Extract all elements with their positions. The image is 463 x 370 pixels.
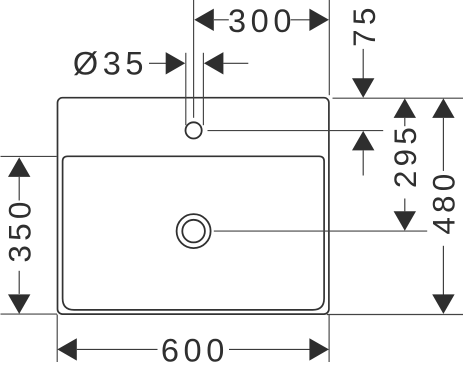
drain outer circle: [177, 214, 211, 248]
dim 295: lower tail: [404, 199, 406, 212]
dia35 left tangent extension: [185, 53, 187, 125]
dim 75: lower tail: [362, 150, 364, 175]
600 right extension (vertical): [328, 315, 330, 363]
svg-text:350: 350: [1, 197, 37, 262]
dim 480: down arrow: [432, 294, 454, 314]
svg-text:300: 300: [228, 3, 296, 39]
rear edge extension (horizontal right): [333, 97, 463, 99]
bowl rear extension (horizontal left): [1, 155, 57, 157]
front edge extension (horizontal right): [327, 314, 463, 316]
washbasin inner bowl: [63, 156, 325, 310]
svg-text:Ø35: Ø35: [73, 46, 148, 82]
dim dia35: right-pointing arrow: [166, 52, 186, 74]
tap centerline extension (vertical): [193, 0, 195, 118]
dia35 right tangent extension: [202, 53, 204, 125]
svg-text:295: 295: [387, 123, 423, 188]
drain inner circle: [182, 220, 205, 243]
dim 75: up arrow: [352, 131, 374, 151]
dim 300: line tails: [214, 19, 229, 21]
drain center extension (horizontal right): [214, 230, 427, 232]
dim 295: down arrow: [394, 211, 416, 231]
600 left extension (vertical): [56, 315, 58, 363]
dim 75: down arrow: [352, 78, 374, 98]
dim 350: lower tail: [18, 271, 20, 294]
dim 480: lower tail: [442, 246, 444, 295]
dim 600: left tail: [77, 348, 158, 350]
tap center extension (horizontal right): [208, 130, 384, 132]
washbasin outer rim: [58, 98, 329, 314]
dim 295: upper tail: [404, 118, 406, 126]
dim dia35: left-pointing arrow: [204, 52, 224, 74]
svg-text:600: 600: [161, 333, 229, 369]
dim 75: upper tail: [362, 49, 364, 79]
dim dia35: right tail: [223, 62, 248, 64]
dim 300: right arrow: [309, 9, 329, 31]
dim 300: left arrow: [194, 9, 214, 31]
right edge extension (vertical, for 300): [328, 0, 330, 95]
dim 350: down arrow: [8, 294, 30, 314]
dim 600: right arrow: [309, 338, 329, 360]
svg-text:75: 75: [346, 3, 382, 46]
dim 480: up arrow: [432, 98, 454, 118]
dim 480: upper tail: [442, 118, 444, 171]
dim 350: upper tail: [18, 177, 20, 201]
front edge extension (horizontal left): [1, 313, 58, 315]
dim 600: left arrow: [57, 338, 77, 360]
dim 600: right tail: [229, 348, 310, 350]
tap hole: [186, 122, 202, 138]
svg-text:480: 480: [426, 170, 462, 235]
dim 350: up arrow: [8, 157, 30, 177]
dim 295: up arrow: [394, 98, 416, 118]
dim dia35: left tail: [149, 62, 166, 64]
